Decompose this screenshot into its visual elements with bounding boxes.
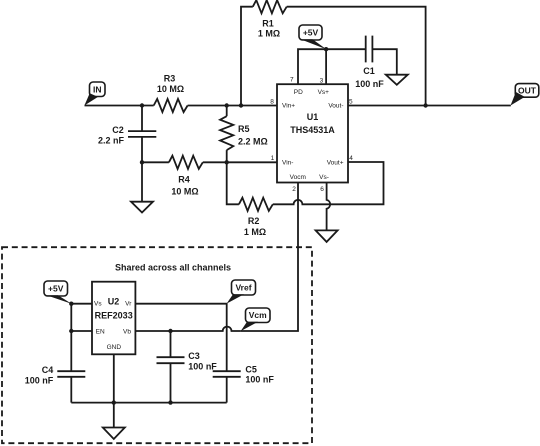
node R5 top: [225, 103, 229, 107]
svg-text:C1: C1: [363, 66, 375, 76]
capacitor C3: [157, 357, 185, 363]
wire +5V rail to U1 pin7: [298, 49, 366, 84]
svg-text:100 nF: 100 nF: [355, 79, 384, 89]
wire R5 bottom lead: [226, 150, 228, 162]
svg-text:Vb: Vb: [123, 329, 131, 336]
dashed shared-channels box: [2, 247, 312, 443]
node R1 right / OUT rail: [423, 103, 427, 107]
svg-text:10 MΩ: 10 MΩ: [171, 186, 198, 196]
capacitor C2: [128, 131, 156, 137]
chip U2 REF2033 body: [92, 282, 135, 355]
svg-text:Vs-: Vs-: [319, 174, 329, 181]
wire R1 top to right leg down to output rail: [287, 7, 426, 106]
svg-text:+5V: +5V: [303, 28, 319, 38]
svg-text:OUT: OUT: [518, 85, 537, 95]
wire U2 GND down to rail and ground: [113, 354, 115, 427]
svg-text:IN: IN: [93, 85, 102, 95]
node C3 bottom: [168, 400, 172, 404]
wire R1 feedback loop left leg and top: [241, 7, 253, 106]
svg-text:6: 6: [320, 186, 324, 193]
svg-text:R3: R3: [164, 73, 176, 83]
wire U1 pin 5 output rail to OUT: [348, 105, 511, 107]
wire R3 to U1 pin 8: [188, 105, 277, 107]
svg-text:R1: R1: [262, 18, 274, 28]
svg-text:EN: EN: [96, 329, 105, 336]
svg-text:Vs: Vs: [94, 301, 102, 308]
node input/C2: [140, 103, 144, 107]
wire bottom rail: [71, 402, 226, 404]
wire U1 pin 2 Vocm vertical down into shared box: [241, 183, 298, 332]
svg-text:100 nF: 100 nF: [25, 376, 54, 386]
node EN: [69, 329, 73, 333]
wire U2 Vr to Vref corner and down to C5: [135, 304, 226, 372]
svg-text:1: 1: [271, 155, 275, 162]
svg-text:100 nF: 100 nF: [245, 375, 274, 385]
svg-text:2.2 nF: 2.2 nF: [98, 136, 125, 146]
ground: [103, 428, 125, 440]
wire C1 right to ground: [372, 49, 396, 74]
port flag OUT: [511, 84, 539, 106]
svg-text:Vin+: Vin+: [282, 103, 295, 110]
resistor R2: [239, 198, 273, 211]
svg-text:2.2 MΩ: 2.2 MΩ: [238, 137, 268, 147]
svg-text:Vocm: Vocm: [290, 174, 306, 181]
power flag +5V bottom: [44, 281, 72, 304]
svg-text:1 MΩ: 1 MΩ: [244, 227, 266, 237]
svg-text:C2: C2: [112, 125, 124, 135]
node Vin- / R5 / R2: [225, 160, 229, 164]
svg-text:R5: R5: [238, 124, 250, 134]
wire C4 bottom to rail: [70, 377, 72, 403]
svg-text:PD: PD: [294, 89, 303, 96]
wire U2 Vb / Vcm rail with hop over Vref line: [135, 327, 241, 331]
svg-text:Vr: Vr: [125, 301, 132, 308]
wire R4 to U1 pin 1: [203, 161, 277, 163]
resistor R5: [220, 116, 233, 150]
svg-text:8: 8: [270, 99, 274, 106]
svg-text:C5: C5: [245, 365, 257, 375]
wire R5 top lead: [226, 106, 228, 117]
svg-text:4: 4: [349, 155, 353, 162]
node C3 top: [168, 329, 172, 333]
svg-text:Shared across all channels: Shared across all channels: [115, 262, 231, 272]
net flag Vref: [227, 280, 256, 304]
node C2 bottom: [140, 160, 144, 164]
svg-text:Vref: Vref: [235, 283, 251, 293]
ground: [131, 202, 153, 213]
resistor R4: [169, 156, 203, 169]
node +5V / Vs: [69, 302, 73, 306]
wire R2 branch from Vin- node down: [227, 162, 239, 204]
svg-text:10 MΩ: 10 MΩ: [157, 84, 184, 94]
resistor R3: [154, 99, 188, 112]
wire +5V to U2 Vs pin: [71, 303, 92, 305]
wire input rail from IN to R3: [85, 105, 154, 107]
capacitor C1: [366, 36, 373, 63]
svg-text:3: 3: [320, 77, 324, 84]
svg-text:Vin-: Vin-: [282, 159, 293, 166]
wire C2 branch vertical: [141, 106, 143, 163]
ground: [386, 75, 408, 85]
svg-text:R4: R4: [178, 174, 190, 184]
wire C2 bottom to ground: [141, 162, 143, 201]
node GND rail: [112, 400, 116, 404]
svg-text:+5V: +5V: [48, 284, 64, 294]
wire U1 pin 6 with hop over R2 wire, to ground: [327, 183, 331, 231]
wire U1 pin 3 stub: [325, 49, 327, 84]
resistor R1: [253, 0, 287, 13]
wire R2 to Vout+ loop with hop over Vocm: [273, 162, 384, 204]
svg-text:REF2033: REF2033: [95, 310, 133, 320]
port flag IN: [84, 82, 105, 106]
wire Vin- rail: [142, 161, 169, 163]
svg-text:C3: C3: [188, 351, 200, 361]
op-amp U1 THS4531A body: [277, 84, 348, 182]
ground: [316, 230, 338, 242]
node junction dots: [69, 47, 428, 405]
svg-text:R2: R2: [248, 216, 260, 226]
svg-text:Vs+: Vs+: [318, 89, 330, 96]
svg-text:GND: GND: [107, 344, 122, 351]
wire C3 branch: [170, 331, 172, 403]
svg-text:Vcm: Vcm: [249, 310, 267, 320]
svg-text:1 MΩ: 1 MΩ: [258, 29, 280, 39]
wire EN stub: [71, 330, 92, 332]
capacitor C5: [213, 371, 241, 377]
svg-text:2: 2: [292, 186, 296, 193]
svg-text:THS4531A: THS4531A: [290, 125, 335, 135]
capacitor C4: [57, 371, 85, 377]
wire +5V/EN vertical down to C4: [70, 304, 72, 372]
svg-text:C4: C4: [42, 365, 54, 375]
wire C5 bottom to rail: [226, 377, 228, 403]
svg-text:U2: U2: [108, 297, 120, 307]
svg-text:5: 5: [349, 99, 353, 106]
svg-text:Vout-: Vout-: [328, 103, 343, 110]
net flag Vcm: [241, 308, 270, 331]
svg-text:Vout+: Vout+: [327, 159, 344, 166]
node R1 left: [239, 103, 243, 107]
node +5V / pin3: [324, 47, 328, 51]
svg-text:100 nF: 100 nF: [188, 362, 217, 372]
svg-text:U1: U1: [307, 112, 319, 122]
power flag +5V top: [299, 25, 326, 49]
svg-text:7: 7: [290, 77, 294, 84]
